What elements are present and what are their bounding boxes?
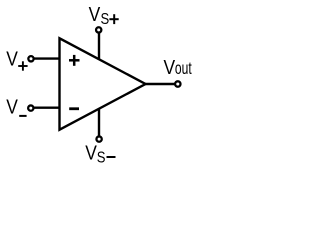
inverting input marker − xyxy=(69,107,79,110)
label V− subscript minus sign xyxy=(19,115,26,117)
terminal VS+ (open circle) xyxy=(96,27,101,32)
label VS− letter V xyxy=(85,142,97,165)
svg-text:S: S xyxy=(97,149,106,166)
svg-text:V: V xyxy=(6,96,18,119)
wire: VS+ supply to triangle top edge xyxy=(98,33,100,61)
label VS+ subscript plus sign xyxy=(109,14,118,24)
svg-text:V: V xyxy=(85,142,97,165)
label V+ subscript plus sign xyxy=(18,61,27,70)
terminal VS− (open circle) xyxy=(96,136,101,141)
svg-text:V: V xyxy=(164,57,176,80)
svg-text:out: out xyxy=(175,59,192,79)
label VS+ subscript S xyxy=(101,11,110,28)
label Vout letter V xyxy=(164,57,176,80)
noninverting input marker + xyxy=(69,55,80,66)
label Vout subscript out xyxy=(175,59,192,79)
svg-text:V: V xyxy=(89,4,101,27)
terminal V+ (open circle) xyxy=(28,56,33,61)
wire: V+ input to triangle xyxy=(34,57,61,59)
svg-text:S: S xyxy=(101,11,110,28)
terminal V− (open circle) xyxy=(28,105,33,110)
wire: output to terminal xyxy=(145,83,176,85)
label V− xyxy=(6,96,18,119)
svg-text:V: V xyxy=(6,48,18,71)
label VS− subscript S xyxy=(97,149,106,166)
wire: V− input to triangle xyxy=(34,106,61,108)
label VS+ letter V xyxy=(89,4,101,27)
label V+ xyxy=(6,48,18,71)
wire: VS− supply to triangle bottom edge xyxy=(98,109,100,136)
label VS− subscript minus sign xyxy=(107,156,116,158)
terminal Vout (open circle) xyxy=(175,81,180,86)
op-amp U1 triangle body xyxy=(60,38,146,129)
